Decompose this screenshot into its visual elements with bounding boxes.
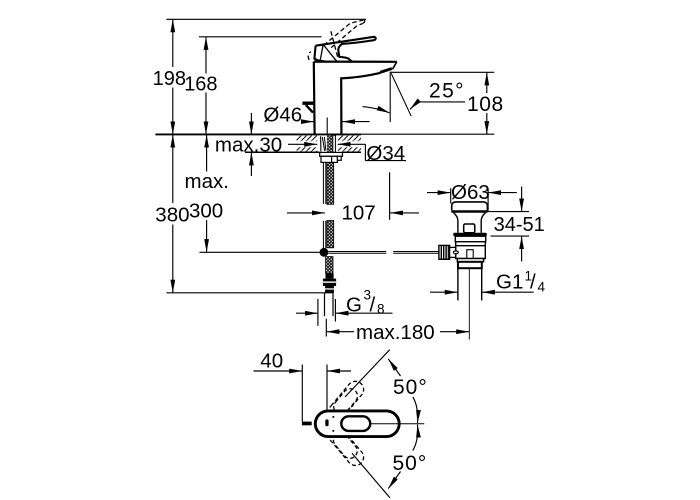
top view: swivel ghost upper (dashed) — [326, 378, 367, 423]
shank mounting nut — [321, 156, 341, 162]
top view: dimension 40 — [254, 365, 352, 422]
dimension diameter 46 — [301, 121, 370, 123]
drain waste flange — [452, 202, 488, 211]
svg-text:4: 4 — [538, 280, 546, 295]
angle 25 deg arc arrow — [363, 107, 390, 113]
svg-text:380: 380 — [155, 204, 189, 227]
pop-up rod below countertop — [323, 163, 325, 249]
svg-text:34-51: 34-51 — [494, 214, 545, 236]
svg-text:50°: 50° — [393, 452, 428, 475]
svg-text:25°: 25° — [429, 79, 465, 102]
countertop hatching right — [338, 135, 361, 151]
drain flange rim — [451, 210, 487, 212]
svg-text:Ø34: Ø34 — [366, 142, 405, 165]
dimension max.30 — [250, 113, 252, 176]
svg-text:50°: 50° — [393, 376, 428, 399]
countertop hatching left — [297, 135, 318, 151]
top view: 50 deg line upper — [345, 350, 390, 397]
svg-text:300: 300 — [189, 199, 223, 222]
drain body step — [457, 259, 483, 262]
top view: faucet base capsule — [315, 411, 399, 437]
braided supply hose lower segment — [326, 257, 333, 274]
threaded shank in hole — [333, 135, 336, 152]
angle 50 deg upper label and leaders — [388, 359, 400, 376]
braided hose in hole — [327, 135, 332, 152]
countertop bottom surface line — [245, 151, 361, 153]
dimension diameter 34 — [288, 144, 406, 160]
top view: pop-up rod stub — [302, 422, 312, 426]
dimension G3/8 — [296, 299, 393, 326]
drain clamp knurled knob — [439, 245, 456, 259]
angle 25 deg leader — [410, 102, 465, 109]
svg-text:G1: G1 — [496, 271, 523, 294]
top view: cartridge mark — [325, 419, 328, 426]
svg-text:Ø46: Ø46 — [263, 103, 302, 126]
drain outlet coupling — [458, 262, 482, 268]
svg-text:/: / — [530, 271, 536, 294]
svg-text:max.30: max.30 — [215, 133, 282, 156]
drain body main — [456, 242, 486, 259]
pop-up rod stem — [306, 105, 313, 113]
G3/8 hose fitting — [323, 273, 336, 293]
lever raised position (dashed ghost) — [308, 20, 365, 60]
svg-text:8: 8 — [377, 302, 385, 317]
svg-text:107: 107 — [342, 202, 376, 225]
horizontal pop-up rod to drain — [328, 252, 439, 254]
svg-text:108: 108 — [467, 93, 504, 116]
drain tailpipe — [458, 268, 482, 300]
drain pivot pin — [453, 251, 458, 254]
dimension diameter 63 — [427, 188, 517, 211]
drain plug knob — [464, 224, 475, 233]
braided supply hose upper segment — [327, 163, 334, 205]
spout aerator — [380, 69, 392, 73]
lever internal edges — [320, 45, 337, 62]
dimension 34-51 — [488, 187, 529, 262]
drain centerline — [468, 268, 470, 339]
svg-text:G: G — [346, 294, 362, 317]
dimension 168 — [199, 37, 322, 135]
svg-text:max.180: max.180 — [356, 321, 435, 344]
lever handle (solid) — [314, 37, 375, 62]
dimension max.180 — [326, 319, 469, 337]
countertop top surface line — [155, 133, 494, 135]
pop-up rod inside body — [326, 118, 328, 134]
svg-text:max.: max. — [185, 170, 229, 193]
drain body slots — [461, 242, 479, 244]
hose end spigot — [325, 293, 334, 316]
pop-up linkage ball joint — [320, 248, 329, 257]
angle 50 deg lower label and leaders — [388, 472, 400, 489]
hoses in countertop hole — [321, 136, 326, 151]
svg-text:/: / — [370, 294, 376, 317]
svg-text:168: 168 — [184, 73, 217, 95]
dimension 198 — [166, 19, 366, 134]
pop-up rod knob — [302, 102, 313, 105]
angle 25 deg stream line — [391, 73, 411, 116]
top view: screw dots — [332, 416, 334, 418]
dimension 107 — [287, 172, 419, 220]
drain body upper — [455, 236, 485, 242]
dimension G1 1/4 — [430, 291, 534, 293]
top view: swivel ghost lower (dashed) — [326, 424, 367, 469]
drain neck — [454, 213, 486, 233]
angle 25 deg reference vertical — [389, 72, 391, 123]
svg-text:Ø63: Ø63 — [451, 181, 490, 204]
hatch break for dimension line — [297, 141, 362, 147]
top view: lever — [341, 416, 370, 431]
top view: centerline — [371, 423, 424, 425]
dimension max.300 — [200, 135, 320, 253]
shank washer under countertop — [320, 152, 343, 156]
faucet body column — [314, 62, 397, 134]
svg-text:40: 40 — [260, 350, 283, 373]
top view: 50 deg line lower — [352, 453, 390, 498]
braided supply hose middle segment — [327, 221, 334, 248]
dimension 108 — [390, 72, 494, 134]
dimension max.380 — [167, 135, 334, 293]
drain seal ring — [453, 233, 487, 237]
svg-text:198: 198 — [153, 68, 186, 90]
